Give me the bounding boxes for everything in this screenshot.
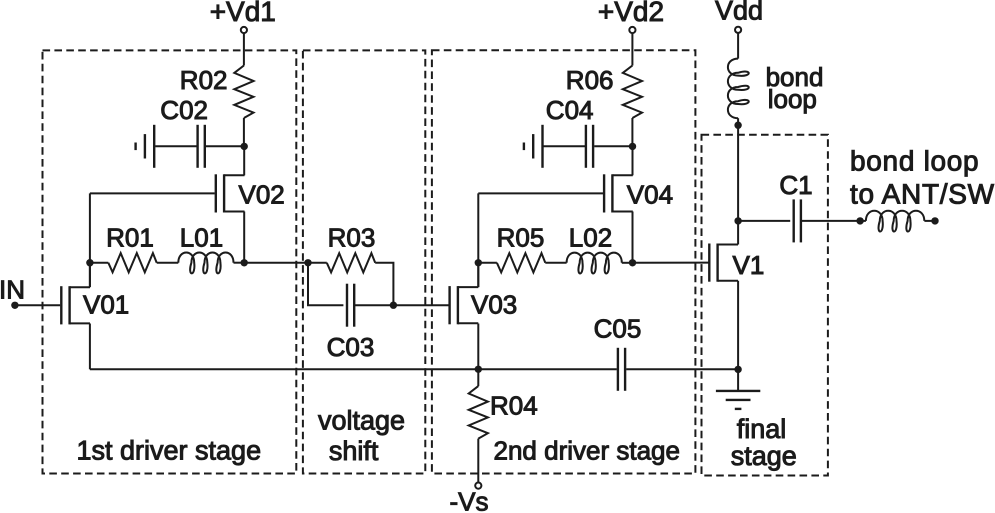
wire L02 to node H (622, 262, 633, 264)
svg-text:+Vd2: +Vd2 (598, 0, 664, 27)
wire node M to coil (860, 220, 866, 222)
wire bottom rail left (90, 368, 617, 370)
node G (V03 drain/R05) (475, 259, 482, 266)
label voltage (318, 405, 405, 435)
label C03 (327, 332, 375, 362)
wire C1 to node M (801, 220, 860, 222)
capacitor C05 (618, 348, 625, 391)
svg-text:R04: R04 (490, 391, 538, 421)
svg-text:Vdd: Vdd (715, 0, 763, 26)
capacitor C02 (198, 125, 205, 168)
label V02 (239, 180, 285, 210)
svg-text:voltage: voltage (318, 405, 405, 435)
wire V1 source (737, 281, 739, 370)
wire node D to R03 (308, 262, 327, 264)
wire node C to node D (244, 262, 308, 264)
svg-text:-Vs: -Vs (450, 487, 489, 513)
box: voltage shift (303, 50, 425, 473)
svg-text:C05: C05 (594, 314, 642, 344)
inductor bond loop (728, 59, 749, 119)
label C04 (546, 95, 594, 125)
node B (V01 drain/R01) (86, 259, 93, 266)
label C05 (594, 314, 642, 344)
label stage (731, 441, 797, 471)
terminal -Vs (475, 483, 481, 489)
wire node J to node K (737, 125, 739, 221)
label IN (0, 274, 25, 304)
svg-text:loop: loop (768, 84, 817, 114)
svg-text:to ANT/SW: to ANT/SW (850, 179, 995, 210)
label -Vs (450, 487, 489, 513)
label V01 (83, 289, 129, 319)
label V04 (627, 180, 673, 210)
ground (C02) (136, 125, 155, 168)
wire R02 to node A (243, 118, 245, 146)
svg-text:V03: V03 (471, 289, 517, 319)
wire R01 to L01 (157, 262, 179, 264)
node E (C03/R03 right) (390, 302, 397, 309)
capacitor C04 (586, 125, 593, 168)
wire V04 source (632, 212, 634, 263)
node J (bond loop) (734, 122, 741, 129)
wire gate column V01 drain (89, 193, 91, 287)
node A (R02/C02/V02 drain) (241, 143, 248, 150)
terminal +Vd2 (629, 27, 635, 33)
capacitor C03 (347, 284, 354, 327)
wire V04 drain (632, 146, 634, 175)
wire V01 source (89, 324, 91, 370)
svg-text:R02: R02 (180, 65, 228, 95)
svg-text:C02: C02 (160, 95, 208, 125)
label C1 (779, 170, 812, 200)
label R01 (106, 222, 154, 252)
svg-text:IN: IN (0, 274, 25, 304)
wire V02 gate (90, 192, 215, 194)
label 2nd driver stage (494, 435, 680, 465)
node H (L02/V04 source) (629, 259, 636, 266)
svg-text:R05: R05 (497, 222, 545, 252)
transistor V01 (61, 286, 90, 324)
transistor V02 (216, 174, 245, 212)
label L02 (569, 222, 612, 252)
svg-text:L01: L01 (180, 222, 223, 252)
wire node K to C1 (738, 220, 790, 222)
node L (rail/V1 source/gnd) (734, 366, 741, 373)
label L01 (180, 222, 223, 252)
svg-text:V01: V01 (83, 289, 129, 319)
label R03 (328, 222, 376, 252)
wire V02 source (243, 212, 245, 263)
label C02 (160, 95, 208, 125)
inductor L02 (567, 253, 622, 274)
box: 2nd driver stage (432, 50, 696, 473)
svg-text:1st driver stage: 1st driver stage (77, 435, 262, 465)
label V1 (733, 250, 765, 280)
wire V01 drain (89, 263, 91, 287)
resistor R05 (497, 253, 545, 272)
node N (ANT/SW end) (931, 217, 938, 224)
svg-text:final: final (737, 414, 787, 444)
wire L01 to node C (234, 262, 245, 264)
node M (C1/output coil) (856, 217, 863, 224)
label bond loop (output) (850, 145, 979, 176)
node K (V1 drain/C1) (734, 217, 741, 224)
wire V03 source (477, 324, 479, 370)
label loop (768, 84, 817, 114)
label R04 (490, 391, 538, 421)
node C (L01/V02 source) (241, 259, 248, 266)
svg-text:R01: R01 (106, 222, 154, 252)
svg-text:R03: R03 (328, 222, 376, 252)
label +Vd2 (598, 0, 664, 27)
inductor bond loop to ANT/SW (866, 211, 924, 232)
svg-text:L02: L02 (569, 222, 612, 252)
svg-text:C1: C1 (779, 170, 812, 200)
box: 1st driver stage (43, 50, 297, 473)
label Vdd (715, 0, 763, 26)
wire node B to R01 (90, 262, 108, 264)
wire bottom rail right (626, 368, 738, 370)
wire C02 to node A (206, 145, 244, 147)
wire R04 to -Vs (477, 439, 479, 483)
svg-text:V04: V04 (627, 180, 673, 210)
resistor R02 (234, 66, 253, 119)
svg-text:2nd driver stage: 2nd driver stage (494, 435, 680, 465)
svg-text:V02: V02 (239, 180, 285, 210)
terminal IN dot (11, 302, 18, 309)
wire R06 to node F (631, 118, 633, 146)
wire V1 drain (737, 221, 739, 245)
node D (R03 left) (304, 259, 311, 266)
wire gnd to C04 (544, 145, 586, 147)
wire R05 to L02 (545, 262, 566, 264)
capacitor C1 (794, 199, 801, 242)
wire R04 top (477, 369, 479, 386)
label final (737, 414, 787, 444)
svg-text:stage: stage (731, 441, 797, 471)
resistor R06 (623, 66, 642, 119)
svg-text:shift: shift (329, 436, 379, 466)
wire IN to V01 gate (15, 304, 60, 306)
wire Vdd to bond loop (737, 33, 739, 59)
resistor R04 (469, 386, 488, 439)
ground (final stage) (716, 369, 760, 409)
node I (V03 source/R04) (475, 366, 482, 373)
label R05 (497, 222, 545, 252)
resistor R01 (108, 253, 156, 272)
svg-text:+Vd1: +Vd1 (210, 0, 276, 27)
resistor R03 (327, 253, 375, 272)
box: final stage (702, 135, 828, 476)
node F (R06/C04/V04 drain) (629, 143, 636, 150)
wire C03 to node E (354, 304, 393, 306)
svg-text:bond loop: bond loop (850, 145, 979, 176)
wire gate column V03 drain (477, 193, 479, 287)
ground (C04) (524, 125, 543, 168)
svg-text:C04: C04 (546, 95, 594, 125)
label 1st driver stage (77, 435, 262, 465)
label R02 (180, 65, 228, 95)
wire coil to terminal (924, 220, 935, 222)
wire C04 to node F (594, 145, 632, 147)
transistor V03 (450, 286, 479, 324)
label to ANT/SW (850, 179, 995, 210)
wire node E to V03 gate (393, 304, 448, 306)
wire bond loop to node J (737, 118, 739, 125)
wire +Vd1 to R02 (243, 33, 245, 65)
wire node G to R05 (478, 262, 497, 264)
label V03 (471, 289, 517, 319)
inductor L01 (178, 253, 233, 274)
svg-text:R06: R06 (566, 65, 614, 95)
transistor V04 (604, 174, 633, 212)
terminal Vdd (735, 27, 741, 33)
wire node D down to C03 (308, 263, 343, 305)
transistor V1 (709, 244, 738, 282)
wire node H to V1 gate (633, 262, 709, 264)
label R06 (566, 65, 614, 95)
terminal +Vd1 (241, 27, 247, 33)
svg-text:C03: C03 (327, 332, 375, 362)
wire V04 gate (478, 192, 603, 194)
wire V03 drain (477, 263, 479, 287)
svg-text:V1: V1 (733, 250, 765, 280)
label shift (329, 436, 379, 466)
label bond (766, 62, 824, 92)
wire R03 right corner (375, 263, 393, 305)
label +Vd1 (210, 0, 276, 27)
wire V02 drain (243, 146, 245, 175)
wire gnd to C02 (155, 145, 197, 147)
wire +Vd2 to R06 (631, 33, 633, 65)
